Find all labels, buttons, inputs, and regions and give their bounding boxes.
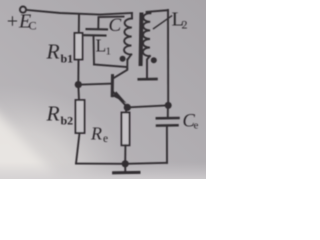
- svg-text:b2: b2: [61, 114, 74, 128]
- node: L2 polarity dot: [151, 57, 157, 63]
- terminal +Ec circle: [20, 7, 26, 13]
- wire: base lead: [78, 84, 112, 85]
- emitter arrowhead: [113, 91, 127, 103]
- svg-text:C: C: [29, 19, 37, 33]
- transformer core: [139, 15, 144, 65]
- wire: emitter node to Ce node: [127, 105, 168, 107]
- wire: Rb1 top lead from rail: [78, 14, 80, 33]
- svg-text:1: 1: [106, 46, 112, 58]
- wire: supply rail from terminal to tank top corner: [26, 10, 132, 15]
- capacitor Ce top plate: [157, 117, 179, 120]
- transistor emitter lead: [112, 91, 127, 107]
- ground bar (L2): [139, 78, 157, 81]
- capacitor Ce bottom lead: [166, 126, 168, 162]
- node: Ce junction dot: [165, 102, 172, 109]
- resistor Rb1: [75, 33, 83, 60]
- inductor L1: [124, 19, 132, 55]
- capacitor Ce top lead: [167, 105, 169, 117]
- capacitor C top lead: [98, 17, 123, 29]
- inductor L2: [143, 13, 150, 56]
- wire: tank bottom to collector corner: [94, 65, 127, 69]
- node: base junction dot: [75, 81, 82, 88]
- svg-text:+E: +E: [6, 11, 32, 33]
- svg-text:C: C: [109, 15, 122, 36]
- wire: right rail: [167, 10, 169, 105]
- ground bar (main): [114, 171, 139, 174]
- capacitor C bottom lead: [93, 36, 96, 64]
- svg-text:e: e: [103, 133, 108, 145]
- capacitor Ce bottom plate: [157, 124, 178, 127]
- wire: Rb2 bottom to ground rail: [76, 133, 80, 164]
- capacitor C top plate: [87, 28, 108, 30]
- wire: rail corner down into L1 top: [131, 13, 133, 19]
- svg-text:R: R: [90, 124, 102, 144]
- svg-text:b1: b1: [61, 52, 74, 66]
- transistor collector lead: [113, 60, 127, 79]
- wire: base node down to Rb2: [77, 85, 80, 100]
- L2 label pointer: [154, 16, 172, 29]
- wire: ground stub: [124, 164, 126, 173]
- transistor base bar: [111, 76, 114, 96]
- resistor Rb2: [76, 100, 85, 133]
- node: ground junction dot: [122, 160, 129, 167]
- wire: emitter node down to Re: [126, 107, 127, 112]
- paper background: [0, 0, 206, 179]
- wire: Rb1 bottom to base node: [77, 60, 79, 85]
- svg-text:2: 2: [182, 18, 188, 32]
- wire: bottom rail: [76, 163, 167, 164]
- wire: L2 top to right rail: [146, 10, 168, 13]
- svg-text:e: e: [194, 120, 199, 132]
- svg-text:R: R: [46, 102, 60, 126]
- wire: Re bottom to rail: [124, 145, 126, 164]
- resistor Re: [122, 113, 130, 146]
- capacitor C bottom plate: [85, 34, 106, 36]
- node: emitter junction dot: [124, 104, 131, 111]
- svg-text:R: R: [46, 40, 60, 64]
- wire: L2 bottom lead to ground: [147, 56, 150, 79]
- wire: L1 bottom lead: [128, 55, 132, 60]
- node: L1 polarity dot: [120, 56, 126, 62]
